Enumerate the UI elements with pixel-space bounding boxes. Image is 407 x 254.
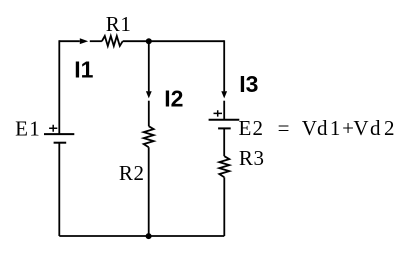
wire top right segment [123,40,225,42]
plus sign of E2 [214,110,223,116]
svg-text:R1: R1 [106,12,131,36]
svg-text:R2: R2 [119,161,144,185]
svg-text:I3: I3 [239,71,258,97]
wire top-left segment [59,40,80,42]
svg-text:R3: R3 [239,146,264,170]
svg-text:E1: E1 [15,116,40,140]
resistor R1 [102,36,123,46]
node junction top [146,38,152,44]
wire middle vertical (node to I2 arrow) [148,41,150,91]
battery E1 [44,133,74,135]
svg-text:I2: I2 [164,85,183,111]
wire left vertical (below E1) [58,143,60,236]
wire left vertical (top of E1) [58,40,60,134]
wire top middle segment (arrow tip to resistor R1) [90,40,102,42]
wire middle vertical (below R2) [148,147,150,236]
wire right vertical (top to I3 arrow) [223,40,225,91]
wire right vertical (below R3) [223,177,225,236]
plus sign of E1 [49,125,57,132]
current arrow I1 [80,38,88,44]
resistor R2 [144,126,154,147]
wire right vertical (E2 to R3) [223,128,225,156]
current arrow I2 [146,91,152,98]
node junction bottom [146,233,152,239]
battery E2 [209,119,240,121]
wire right vertical (arrow to E2) [223,101,225,120]
wire bottom [59,235,224,237]
current arrow I3 [221,91,227,98]
wire middle vertical (arrow to R2) [148,101,150,127]
resistor R3 [219,156,229,177]
svg-text:I1: I1 [74,56,93,82]
svg-text:E2 = Vd1+Vd2: E2 = Vd1+Vd2 [238,116,394,140]
